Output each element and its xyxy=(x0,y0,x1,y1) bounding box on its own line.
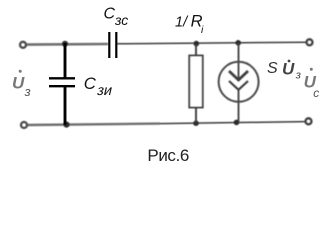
svg-text:с: с xyxy=(313,86,319,100)
svg-text:C: C xyxy=(84,74,97,93)
svg-text:зс: зс xyxy=(114,12,128,28)
svg-text:S: S xyxy=(267,60,278,77)
svg-text:C: C xyxy=(104,5,116,22)
svg-text:U: U xyxy=(12,73,25,92)
svg-text:з: з xyxy=(295,70,301,82)
svg-text:1/: 1/ xyxy=(175,15,189,31)
svg-text:з: з xyxy=(24,84,31,99)
svg-text:Рис.6: Рис.6 xyxy=(147,146,189,165)
